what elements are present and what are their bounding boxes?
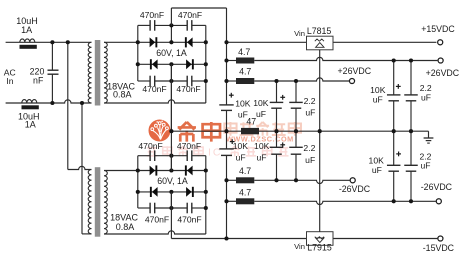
svg-text:60V, 1A: 60V, 1A [156,48,187,58]
svg-text:nF: nF [33,75,44,85]
svg-text:4.7: 4.7 [239,166,251,176]
svg-text:10K: 10K [233,141,249,151]
svg-text:+26VDC: +26VDC [338,66,372,76]
svg-text:uF: uF [421,92,431,102]
svg-text:-26VDC: -26VDC [421,182,453,192]
svg-text:470nF: 470nF [176,84,200,94]
svg-text:uF: uF [238,109,248,119]
svg-text:60V, 1A: 60V, 1A [157,176,188,186]
svg-text:10K: 10K [235,99,251,109]
svg-text:10K: 10K [370,85,386,95]
svg-text:1A: 1A [21,25,32,35]
svg-text:-15VDC: -15VDC [423,243,455,253]
svg-text:4.7: 4.7 [238,47,250,57]
svg-text:10K: 10K [369,156,385,166]
svg-text:uF: uF [373,94,383,104]
svg-text:4.7: 4.7 [239,67,251,77]
svg-text:uF: uF [372,165,382,175]
svg-text:470nF: 470nF [145,215,169,225]
svg-text:uF: uF [236,153,246,163]
svg-text:uF: uF [256,109,266,119]
svg-text:0.8A: 0.8A [116,222,135,232]
svg-text:uF: uF [420,161,430,171]
svg-text:470nF: 470nF [177,215,201,225]
svg-text:-26VDC: -26VDC [339,184,371,194]
svg-text:470nF: 470nF [142,84,166,94]
svg-text:470nF: 470nF [178,10,202,20]
svg-text:In: In [6,76,13,86]
svg-text:Vin: Vin [294,242,305,251]
svg-text:Vin: Vin [294,29,305,38]
svg-text:uF: uF [305,108,315,118]
svg-text:2.2: 2.2 [304,96,316,106]
svg-text:+15VDC: +15VDC [421,24,455,34]
svg-text:2.2: 2.2 [303,143,315,153]
svg-text:uF: uF [305,155,315,165]
svg-text:470nF: 470nF [138,141,162,151]
svg-text:470nF: 470nF [177,141,201,151]
svg-text:470nF: 470nF [140,10,164,20]
svg-text:L7815: L7815 [307,26,332,36]
svg-text:+26VDC: +26VDC [426,68,460,78]
svg-text:1A: 1A [25,120,36,130]
svg-text:10K: 10K [254,141,270,151]
svg-text:L7915: L7915 [307,242,332,252]
svg-text:4.7: 4.7 [239,187,251,197]
svg-text:0.8A: 0.8A [113,90,132,100]
svg-text:uF: uF [256,153,266,163]
svg-text:10K: 10K [253,98,269,108]
